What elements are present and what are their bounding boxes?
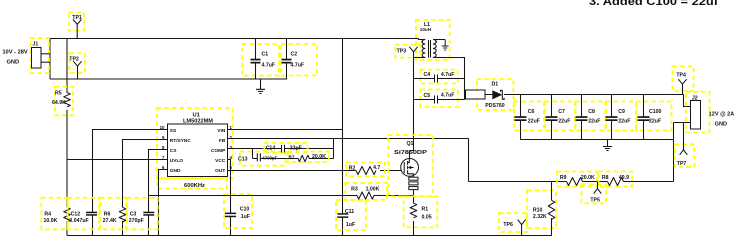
resistor R7 [288,152,329,162]
svg-text:0.05: 0.05 [422,214,432,220]
wire: L1b bottom jog to coupling column [433,58,465,100]
capacitor C1 [242,39,279,80]
svg-text:TP3: TP3 [397,48,407,54]
wire: output ground rail [521,139,674,141]
wire: J2 pin2 gnd return [674,123,691,182]
capacitor C8 [576,95,606,140]
svg-text:R10: R10 [533,207,543,213]
wire: UVLO pin 7 to divider [67,159,168,161]
capacitor C2 [281,39,317,80]
svg-text:1.00K: 1.00K [366,187,380,193]
svg-text:22uF: 22uF [649,119,661,125]
wire: VIN/UVLO divider column (top rail down through R5, UVLO tap, R4 to gnd) [66,39,68,236]
wire: FB divider row [469,139,674,182]
connector J2 [686,92,710,133]
svg-text:COMP: COMP [211,148,226,154]
svg-text:GND: GND [170,168,181,174]
svg-text:R3: R3 [351,187,358,193]
capacitor C14 [264,143,307,153]
svg-text:R6: R6 [104,211,111,217]
svg-text:C10: C10 [240,207,250,213]
svg-text:2.32K: 2.32K [533,214,547,220]
svg-text:1uF: 1uF [241,214,250,220]
svg-text:C100: C100 [649,109,662,115]
svg-text:GND: GND [715,122,727,128]
wire: VIN vertical column with C11 [342,39,344,236]
svg-text:20.0K: 20.0K [581,175,595,181]
svg-text:C3: C3 [130,211,137,217]
svg-text:FB: FB [219,138,226,144]
wire: bottom ground rail [67,235,552,237]
wire: J1 pin1 riser to top rail [49,39,51,80]
svg-text:4.7: 4.7 [373,165,380,171]
resistor R1 [404,196,438,235]
svg-text:LM5022MM: LM5022MM [183,118,213,124]
svg-text:20.0K: 20.0K [312,154,326,160]
svg-text:PDS760: PDS760 [485,103,504,109]
test point TP3 [395,45,420,58]
svg-text:VCC: VCC [215,158,226,164]
test point TP5 [582,182,607,204]
svg-text:0.047uF: 0.047uF [69,218,88,224]
svg-text:TP4: TP4 [676,72,686,78]
test point TP4 [672,66,693,94]
svg-text:C4: C4 [424,72,431,78]
svg-text:C5: C5 [424,93,431,99]
svg-text:R7: R7 [289,154,295,159]
wire: CS pin 8 to C3 / R3 node [149,150,168,236]
wire: COMP pin 3 network branches [228,139,334,159]
svg-text:R4: R4 [44,211,51,217]
capacitor C10 [224,194,252,228]
svg-text:TP7: TP7 [677,161,687,167]
label: 600KHz [157,179,227,190]
wire: input ground rail [50,78,287,80]
test point TP7 [675,123,695,168]
svg-text:4700pF: 4700pF [262,156,277,161]
capacitor C4 [414,70,465,84]
svg-text:GND: GND [7,59,20,65]
diode D1 PDS760 (with inrush rect) [466,79,521,110]
test point TP2 [69,53,85,79]
svg-text:33pF: 33pF [290,145,302,151]
svg-text:C6: C6 [528,109,535,115]
label: output voltage [709,112,735,128]
test point TP6 [499,213,527,235]
svg-text:12V @ 2A: 12V @ 2A [709,112,735,118]
svg-text:22uF: 22uF [528,119,540,125]
resistor R4 [41,198,70,230]
wire: J1 pin2 stub and drop to input gnd rail [41,61,50,63]
capacitor C11 [336,200,366,230]
svg-text:C7: C7 [558,109,565,115]
svg-text:C13: C13 [238,156,248,162]
svg-text:D1: D1 [492,82,499,88]
svg-text:C14: C14 [266,145,276,151]
svg-text:R1: R1 [422,206,429,212]
svg-text:UVLO: UVLO [170,158,184,164]
wire: VOUT to J2 pin1 [684,95,691,107]
resistor R10 [527,182,556,236]
svg-text:Q1: Q1 [407,141,414,147]
svg-text:Si7850DP: Si7850DP [394,150,428,156]
capacitor C12 [68,198,100,230]
svg-text:10uH: 10uH [420,27,432,32]
svg-text:C2: C2 [291,52,298,58]
wire: VIN top rail [50,38,419,40]
wire: VOUT rail [504,94,684,96]
capacitor C6 [514,95,544,140]
wire: VIN pin 1 to VIN column [228,129,343,131]
wire: CS sense line R3 row [149,195,414,197]
wire: GND pin 6 drop [159,170,168,236]
wire: RT/SYNC pin 9 to R6 [123,140,168,236]
svg-text:4.7uF: 4.7uF [262,63,276,69]
svg-text:C12: C12 [71,211,81,217]
svg-text:TP5: TP5 [590,197,600,203]
connector J1 [31,38,50,73]
svg-text:27.4K: 27.4K [103,218,117,224]
svg-text:TP6: TP6 [503,222,513,228]
svg-text:SS: SS [170,128,177,134]
svg-text:10V - 28V: 10V - 28V [2,49,28,55]
test point TP1 [69,13,84,39]
svg-text:22uF: 22uF [588,119,600,125]
svg-text:R9: R9 [560,175,567,181]
capacitor C5 [414,90,465,107]
resistor R5 [52,87,73,116]
wire: FB pin 2 line to divider [228,138,469,140]
ground (input rail) [256,79,265,94]
svg-text:R5: R5 [55,91,62,97]
transistor Q1 Si7850DP (N-MOSFET) [388,135,433,196]
label: input voltage [2,49,28,65]
svg-text:VIN: VIN [217,128,226,134]
resistor R6 [100,198,126,230]
svg-text:R8: R8 [602,175,609,181]
svg-text:RT/SYNC: RT/SYNC [170,138,192,144]
svg-text:CS: CS [170,148,177,154]
svg-text:22uF: 22uF [558,119,570,125]
svg-text:C9: C9 [618,109,625,115]
capacitor C100 [637,95,672,140]
capacitor C13 [238,152,286,166]
ground (output rail) [603,140,612,151]
capacitor C3 [127,198,158,230]
wire: J1 pin1 stub [41,53,50,55]
svg-text:J1: J1 [33,42,39,48]
resistor R9 [557,172,597,187]
svg-text:600KHz: 600KHz [184,183,205,189]
svg-text:3. Added C100 = 22uf: 3. Added C100 = 22uf [589,0,718,8]
svg-text:C8: C8 [588,109,595,115]
wire: SW node column (L1a bottom, TP3, C4/C5 left, Q1 drain) [410,58,426,160]
inductor L1 (coupled, 10uH) [416,20,450,60]
svg-text:OUT: OUT [215,168,225,174]
wire: VCC pin 4 to C10 [228,160,231,236]
capacitor C9 [606,95,637,140]
svg-text:1uF: 1uF [346,222,355,228]
resistor R2 [346,162,385,176]
op-amp/controller U1 LM5022MM [157,108,233,178]
svg-text:C1: C1 [262,52,269,58]
svg-text:10.0K: 10.0K [44,218,58,224]
resistor R3 [345,183,387,200]
wire: OUT pin 5 gate drive line [228,170,402,172]
svg-text:270pF: 270pF [129,218,144,224]
svg-text:22uF: 22uF [618,119,630,125]
capacitor C7 [545,95,575,140]
svg-text:R2: R2 [349,165,356,171]
svg-text:4.7uF: 4.7uF [441,93,455,99]
svg-text:4.7uF: 4.7uF [291,63,305,69]
wire: Q1 source to R1 [413,190,415,203]
resistor R8 [599,172,633,187]
svg-text:4.7uF: 4.7uF [441,72,455,78]
wire: SS pin 10 to C12 [93,130,168,236]
ground (L1 secondary top) [442,40,449,50]
